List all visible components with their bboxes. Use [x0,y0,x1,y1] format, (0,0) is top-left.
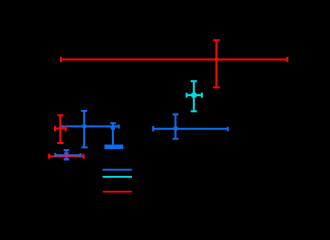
wire B1 x-error line [60,125,119,127]
errorbar point P4 blue part [55,150,80,159]
node R2 marker [58,126,62,130]
wire P4 blue x-error line [55,154,80,156]
C1 left cap [186,93,188,98]
P4 blue bottom cap [64,159,70,161]
R1 top cap [213,39,220,41]
B3 bottom cap [173,138,179,140]
B3 top cap [173,113,179,115]
R1 bottom cap [213,86,220,88]
P4 red left cap [48,154,50,159]
R2 bottom cap [57,142,63,144]
B1 bottom cap [81,146,87,148]
wire P4 red x-error line [49,155,84,157]
errorbar point C1 (cyan) [186,81,202,111]
R2 left cap [54,126,56,131]
C1 bottom cap [191,110,197,112]
wire R2 x-error line [55,128,66,130]
node B1 marker [82,124,87,129]
wire R1 x-error line [61,59,288,61]
P4 blue left cap [54,153,56,157]
B1 right cap [118,125,120,129]
errorbar point B1 (blue) [60,111,119,147]
C1 right cap [201,93,203,98]
wire B1 y-error line [83,111,85,147]
B1 top cap [81,110,87,112]
legend red line [103,191,132,193]
wire C1 y-error line [193,81,195,111]
errorbar point R2 (red) [55,115,66,143]
errorbar point B2 (blue, caret-down limit) [110,123,116,147]
R1 right cap [286,57,288,62]
P4 red top cap [64,152,69,154]
wire C1 x-error line [186,94,202,96]
node C1 marker [191,93,196,98]
B2 wide bottom cap [104,145,123,150]
P4 blue right cap [80,153,82,157]
wire B3 x-error line [153,128,228,130]
R1 left cap [60,57,62,62]
node R1 marker [215,57,219,61]
errorbar point B3 (blue) [153,114,228,138]
node P4 marker (blended purple) [64,153,69,158]
wire P4 blue y-error line [65,150,67,159]
B1 left cap [60,124,62,129]
node B3 marker [173,126,178,131]
legend cyan line [103,176,132,178]
B2 caret-down marker [110,127,116,132]
P4 blue top cap [64,149,70,151]
errorbar point R1 (red, large x/y errors) [61,40,288,87]
wire R1 y-error line [215,40,217,87]
B3 right cap [227,127,229,131]
B2 upper cap [110,122,116,124]
wire B3 y-error line [175,114,177,138]
R2 top cap [57,114,63,116]
wire R2 y-error line [59,115,61,143]
P4 red bottom cap [64,158,69,160]
errorbar point P4 red part (overlapped red+blue point) [49,153,84,159]
B3 left cap [152,126,154,131]
R2 right cap [65,126,67,131]
C1 top cap [191,80,197,82]
P4 red right cap [83,154,85,159]
wire B2 y-error line [112,123,114,147]
legend blue line [103,169,132,171]
